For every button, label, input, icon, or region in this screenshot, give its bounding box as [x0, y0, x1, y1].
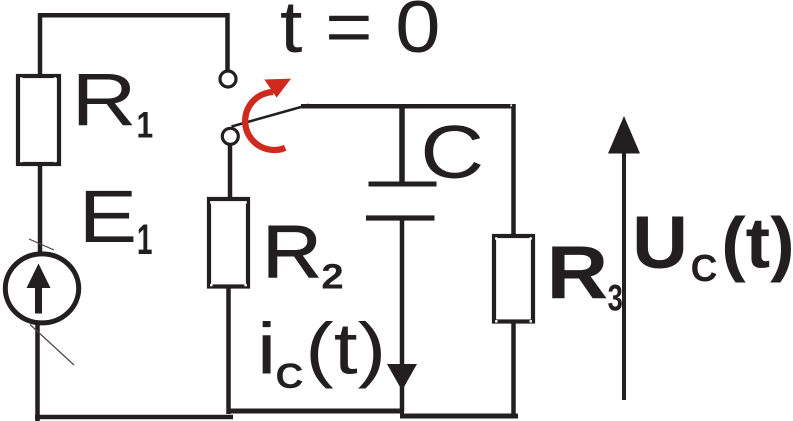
wire top-left loop — [40, 15, 228, 78]
svg-text:U: U — [632, 203, 688, 285]
label R3 — [547, 231, 623, 319]
resistor R2 — [209, 199, 248, 287]
bottom wire right — [400, 414, 518, 419]
wire R1 to E1 — [38, 164, 43, 255]
svg-text:2: 2 — [321, 258, 344, 297]
switch blade — [232, 105, 310, 127]
resistor R3 — [494, 236, 533, 323]
svg-text:R: R — [71, 58, 136, 142]
label R1 — [71, 58, 153, 147]
wire C to bottom — [400, 220, 405, 412]
capacitor C — [366, 106, 437, 221]
label UC(t) — [632, 203, 793, 290]
wire R3 to bottom — [511, 322, 516, 416]
wire R2 to bottom — [226, 286, 231, 414]
svg-text:i: i — [257, 309, 277, 389]
switch bottom contact — [222, 128, 238, 144]
svg-text:C: C — [691, 246, 718, 289]
wire switch to R2 — [228, 144, 233, 199]
svg-text:1: 1 — [137, 104, 154, 146]
svg-text:1: 1 — [137, 215, 153, 264]
svg-text:E: E — [79, 176, 138, 258]
wire E1 to bottom — [35, 322, 40, 421]
svg-text:3: 3 — [608, 278, 623, 319]
stray mark — [29, 239, 54, 250]
svg-text:C: C — [420, 111, 484, 195]
red switching arrow — [245, 79, 291, 150]
svg-text:(t): (t) — [305, 308, 386, 389]
resistor R1 — [18, 76, 59, 164]
svg-text:t = 0: t = 0 — [280, 0, 441, 68]
svg-text:R: R — [262, 210, 321, 293]
source E1 — [5, 254, 78, 323]
wire top right — [301, 105, 514, 237]
bottom wire left — [35, 415, 233, 420]
voltage arrow UC — [608, 116, 640, 400]
stray mark — [30, 325, 74, 366]
label E1 — [79, 176, 153, 263]
svg-text:R: R — [547, 231, 609, 315]
svg-text:C: C — [276, 357, 304, 396]
label R2 — [262, 210, 344, 297]
current arrowhead iC — [387, 364, 417, 391]
label iC(t) — [257, 308, 387, 395]
bottom wire middle — [227, 409, 404, 414]
switch top contact — [220, 71, 236, 87]
svg-text:(t): (t) — [721, 203, 793, 283]
